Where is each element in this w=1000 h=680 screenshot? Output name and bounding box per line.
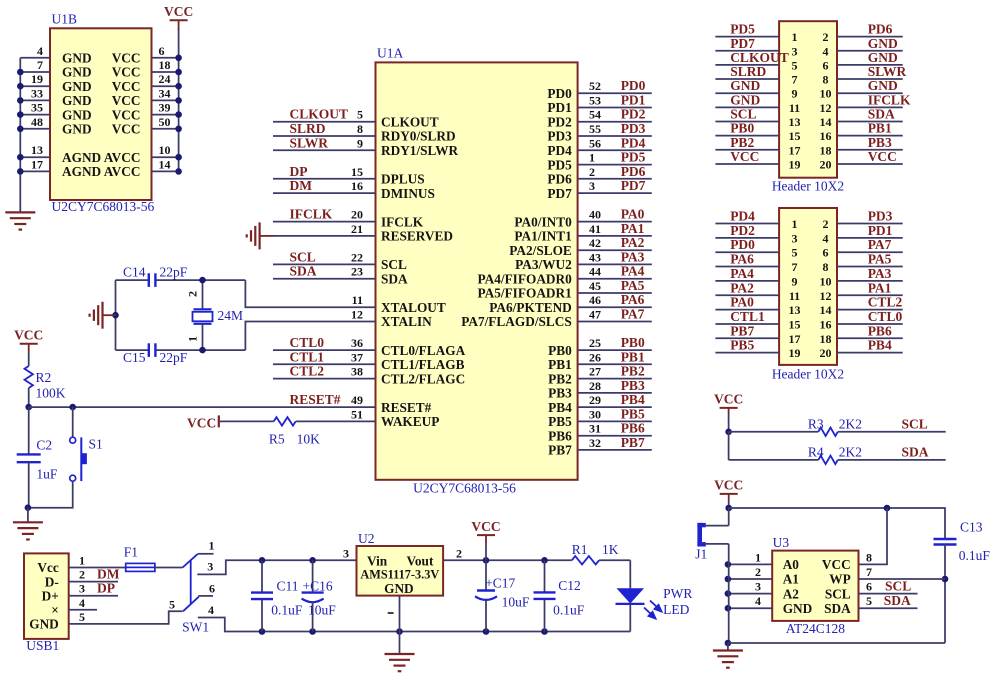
junction [175, 168, 182, 175]
Header2 pin 5 wire + net PD0 [715, 251, 779, 253]
svg-text:26: 26 [589, 350, 601, 364]
svg-text:56: 56 [589, 136, 601, 150]
svg-text:VCC: VCC [112, 107, 141, 122]
wire ground stem [399, 632, 401, 655]
wire net PA3 from U1A [578, 263, 652, 265]
wire net PA2 from U1A [578, 249, 652, 251]
wire net DP to U1A [273, 178, 376, 180]
junction [199, 347, 206, 354]
junction [17, 69, 24, 76]
junction [175, 83, 182, 90]
svg-text:22pF: 22pF [160, 350, 188, 365]
junction [175, 154, 182, 161]
svg-text:44: 44 [589, 265, 601, 279]
svg-text:U3: U3 [773, 535, 790, 550]
wire net PD6 from U1A [578, 178, 652, 180]
svg-text:GND: GND [62, 122, 92, 137]
svg-text:SCL: SCL [902, 416, 928, 431]
svg-text:47: 47 [589, 308, 601, 322]
svg-text:VCC: VCC [822, 557, 851, 572]
Header2 pin 18 wire + net PB6 [837, 337, 903, 339]
svg-text:3: 3 [792, 44, 798, 58]
svg-text:DMINUS: DMINUS [381, 186, 435, 201]
svg-text:IFCLK: IFCLK [868, 92, 911, 107]
Header1 pin 8 wire + net SLWR [837, 78, 903, 80]
U1B pin 39 (VCC) stub [152, 114, 179, 116]
svg-text:12: 12 [820, 101, 832, 115]
svg-text:19: 19 [31, 72, 43, 86]
net label DP wire [69, 595, 118, 597]
svg-text:PD0: PD0 [547, 86, 572, 101]
connector USB1 [24, 553, 69, 639]
junction [17, 126, 24, 133]
svg-text:PA7: PA7 [621, 307, 645, 322]
svg-text:PD0: PD0 [730, 237, 755, 252]
wire net PB7 from U1A [578, 449, 652, 451]
U3 pin 4 (GND) [728, 607, 772, 609]
svg-text:3: 3 [792, 231, 798, 245]
junction [17, 83, 24, 90]
SW1 linkage bar [190, 560, 192, 604]
Header1 pin 19 wire + net VCC [715, 163, 779, 165]
svg-text:VCC: VCC [187, 416, 216, 431]
Header1 pin 12 wire + net IFCLK [837, 106, 903, 108]
wire net CTL1 to U1A [273, 363, 376, 365]
ground symbol below U2 [385, 654, 415, 671]
svg-text:4: 4 [37, 44, 43, 58]
wire USB GND to SW1 pin5 [69, 611, 183, 624]
svg-text:PA3/WU2: PA3/WU2 [515, 257, 572, 272]
wire U1B left GND bus [19, 58, 21, 213]
svg-text:WP: WP [829, 572, 850, 587]
wire stub to ground [103, 314, 116, 316]
svg-text:U1A: U1A [377, 46, 403, 61]
wire net SLWR to U1A [273, 149, 376, 151]
wire net SLRD to U1A [273, 135, 376, 137]
svg-text:PB3: PB3 [548, 386, 572, 401]
wire net CTL0 to U1A [273, 349, 376, 351]
svg-text:25: 25 [589, 336, 601, 350]
U1B pin 18 (VCC) stub [152, 71, 179, 73]
svg-text:2: 2 [823, 217, 829, 231]
Header2 pin 12 wire + net PA1 [837, 294, 903, 296]
svg-text:31: 31 [589, 422, 601, 436]
svg-text:1: 1 [589, 151, 595, 165]
svg-text:2: 2 [456, 546, 462, 560]
wire 3.3V rail U2 Vout to LED [443, 559, 572, 561]
svg-text:CTL0/FLAGA: CTL0/FLAGA [381, 343, 466, 358]
svg-text:17: 17 [789, 332, 801, 346]
svg-text:2: 2 [823, 30, 829, 44]
wire VCC rail to C13 [729, 508, 945, 539]
svg-text:20: 20 [820, 346, 832, 360]
svg-text:5: 5 [79, 610, 85, 624]
svg-text:3: 3 [755, 580, 761, 594]
svg-text:IFCLK: IFCLK [290, 207, 333, 222]
svg-text:VCC: VCC [112, 51, 141, 66]
svg-text:SDA: SDA [290, 264, 317, 279]
svg-text:19: 19 [789, 157, 801, 171]
Header2 pin 6 wire + net PA7 [837, 251, 903, 253]
Header2 pin 3 wire + net PD2 [715, 237, 779, 239]
svg-text:18: 18 [159, 58, 171, 72]
svg-text:Vin: Vin [367, 554, 388, 569]
Header2 pin 19 wire + net PB5 [715, 352, 779, 354]
svg-text:8: 8 [866, 550, 872, 564]
net label DM wire [69, 581, 118, 583]
svg-text:R5: R5 [269, 432, 285, 447]
wire S1 bottom to C2 bottom [28, 481, 73, 508]
junction [259, 628, 266, 635]
svg-text:10K: 10K [297, 432, 321, 447]
svg-text:28: 28 [589, 379, 601, 393]
svg-text:AGND: AGND [62, 164, 101, 179]
ground symbol GND bus U1B [5, 212, 35, 229]
wire to ground [27, 508, 29, 523]
svg-text:6: 6 [823, 58, 829, 72]
U1B pin 6 (VCC) stub [152, 57, 179, 59]
wire U3 SCL out [859, 593, 918, 595]
svg-text:33: 33 [31, 86, 43, 100]
svg-text:C12: C12 [558, 578, 581, 593]
svg-text:AGND: AGND [62, 150, 101, 165]
svg-text:SCL: SCL [825, 586, 851, 601]
junction [69, 404, 76, 411]
svg-text:13: 13 [789, 303, 801, 317]
svg-text:PB6: PB6 [548, 428, 572, 443]
wire net PA0 from U1A [578, 221, 652, 223]
svg-text:XTALIN: XTALIN [381, 314, 432, 329]
svg-text:19: 19 [789, 346, 801, 360]
svg-text:8: 8 [823, 73, 829, 87]
junction [175, 126, 182, 133]
junction [725, 605, 732, 612]
svg-text:GND: GND [868, 36, 898, 51]
svg-text:52: 52 [589, 79, 601, 93]
junction [309, 557, 316, 564]
svg-text:51: 51 [351, 407, 363, 421]
svg-text:1uF: 1uF [36, 467, 58, 482]
switch S1 (pushbutton) [72, 407, 74, 437]
svg-text:SDA: SDA [381, 271, 408, 286]
svg-text:PB0: PB0 [548, 343, 572, 358]
IC U1A (CY7C68013-56 MCU) [376, 62, 578, 479]
wire net PA5 from U1A [578, 292, 652, 294]
wire VCC to R2 [28, 352, 30, 366]
svg-text:14: 14 [820, 115, 832, 129]
svg-text:PD7: PD7 [730, 36, 755, 51]
svg-text:PB6: PB6 [868, 323, 892, 338]
svg-text:U2: U2 [358, 531, 375, 546]
Header2 pin 7 wire + net PA6 [715, 266, 779, 268]
wire XTALOUT from crystal to U1A pin 11 [245, 280, 375, 307]
wire VCC down to SCL row [728, 414, 730, 432]
svg-text:CTL2/FLAGC: CTL2/FLAGC [381, 371, 465, 386]
svg-text:D-: D- [45, 574, 59, 589]
Header1 pin 13 wire + net SCL [715, 121, 779, 123]
svg-text:1: 1 [79, 554, 85, 568]
U1B pin 19 (GND) stub [20, 85, 50, 87]
junction [175, 97, 182, 104]
svg-text:DP: DP [97, 581, 115, 596]
svg-text:PD5: PD5 [730, 22, 755, 37]
fuse F1 [126, 563, 155, 571]
wire GND rail [262, 631, 630, 633]
svg-text:2: 2 [79, 568, 85, 582]
wire net DM to U1A [273, 192, 376, 194]
wire SDA pull-up net [729, 459, 819, 461]
svg-text:PB1: PB1 [868, 121, 892, 136]
svg-text:46: 46 [589, 293, 601, 307]
svg-text:CTL2: CTL2 [868, 295, 903, 310]
svg-text:A0: A0 [783, 557, 800, 572]
junction [17, 97, 24, 104]
svg-text:SDA: SDA [902, 444, 929, 459]
svg-text:VCC: VCC [868, 149, 897, 164]
svg-text:CTL1: CTL1 [730, 309, 765, 324]
wire net PD2 from U1A [578, 121, 652, 123]
svg-text:PA5/FIFOADR1: PA5/FIFOADR1 [477, 286, 571, 301]
svg-text:PD4: PD4 [621, 135, 646, 150]
svg-text:GND: GND [29, 617, 59, 632]
svg-text:41: 41 [589, 222, 601, 236]
svg-text:VCC: VCC [164, 4, 193, 19]
wire net PB4 from U1A [578, 406, 652, 408]
svg-text:PA6: PA6 [621, 292, 645, 307]
svg-text:0.1uF: 0.1uF [271, 603, 303, 618]
wire net PD1 from U1A [578, 107, 652, 109]
svg-text:C14: C14 [123, 265, 146, 280]
svg-text:14: 14 [820, 303, 832, 317]
svg-text:17: 17 [31, 157, 43, 171]
svg-text:PB0: PB0 [621, 335, 645, 350]
wire net PB1 from U1A [578, 363, 652, 365]
Header1 pin 10 wire + net GND [837, 92, 903, 94]
svg-text:DPLUS: DPLUS [381, 172, 425, 187]
svg-text:27: 27 [589, 365, 601, 379]
wire net SDA to U1A [273, 278, 376, 280]
capacitor C13 [934, 538, 957, 540]
svg-text:GND: GND [62, 65, 92, 80]
svg-text:DM: DM [97, 567, 120, 582]
U1B pin 7 (GND) stub [20, 71, 50, 73]
Header1 pin 3 wire + net PD7 [715, 50, 779, 52]
svg-text:1: 1 [186, 336, 200, 342]
svg-text:PD5: PD5 [621, 150, 646, 165]
junction [396, 628, 403, 635]
IC U3 (AT24C128 EEPROM) [772, 551, 858, 621]
svg-text:16: 16 [351, 179, 363, 193]
svg-text:2: 2 [186, 291, 200, 297]
svg-text:PB5: PB5 [730, 338, 754, 353]
svg-text:5: 5 [866, 594, 872, 608]
svg-text:PB4: PB4 [868, 338, 892, 353]
U3 pin 2 (A1) [728, 578, 772, 580]
svg-text:GND: GND [868, 78, 898, 93]
svg-text:R3: R3 [808, 416, 824, 431]
svg-text:PA0/INT0: PA0/INT0 [514, 214, 572, 229]
svg-text:IFCLK: IFCLK [381, 214, 424, 229]
capacitor C17 (polarized) [485, 560, 487, 590]
svg-text:GND: GND [730, 92, 760, 107]
svg-text:3: 3 [79, 582, 85, 596]
wire RESET# net to U1A pin 49 [29, 406, 376, 408]
svg-text:7: 7 [792, 260, 798, 274]
wire net PD4 from U1A [578, 149, 652, 151]
svg-text:45: 45 [589, 279, 601, 293]
svg-text:10: 10 [820, 274, 832, 288]
junction [483, 628, 490, 635]
wire net SCL to U1A [273, 263, 376, 265]
wire net IFCLK to U1A [273, 221, 376, 223]
Header2 pin 13 wire + net PA0 [715, 309, 779, 311]
svg-text:54: 54 [589, 108, 601, 122]
Header2 pin 17 wire + net PB7 [715, 337, 779, 339]
junction [259, 557, 266, 564]
svg-text:3: 3 [207, 559, 213, 573]
svg-text:GND: GND [62, 79, 92, 94]
svg-text:PA4/FIFOADR0: PA4/FIFOADR0 [477, 271, 572, 286]
svg-text:PA7/FLAGD/SLCS: PA7/FLAGD/SLCS [461, 314, 572, 329]
svg-text:DM: DM [290, 178, 313, 193]
svg-text:VCC: VCC [112, 65, 141, 80]
U1B pin 33 (GND) stub [20, 99, 50, 101]
svg-text:PB3: PB3 [621, 378, 645, 393]
Header1 pin 2 wire + net PD6 [837, 36, 903, 38]
junction [942, 576, 949, 583]
svg-text:PA4: PA4 [621, 264, 645, 279]
svg-text:37: 37 [351, 350, 363, 364]
svg-text:C2: C2 [36, 438, 52, 453]
junction [199, 277, 206, 284]
wire R2 to RESET node [28, 388, 30, 407]
svg-text:PB4: PB4 [548, 400, 572, 415]
Header2 pin 2 wire + net PD3 [837, 223, 903, 225]
wire net PB3 from U1A [578, 392, 652, 394]
svg-text:RESET#: RESET# [290, 392, 341, 407]
svg-text:PB3: PB3 [868, 135, 892, 150]
junction [725, 590, 732, 597]
svg-text:30: 30 [589, 407, 601, 421]
wire ground stem [727, 643, 729, 651]
svg-text:R4: R4 [808, 444, 824, 459]
junction [541, 628, 548, 635]
svg-text:PB2: PB2 [621, 364, 645, 379]
svg-text:8: 8 [357, 122, 363, 136]
ground symbol below C2 [13, 522, 43, 539]
SW1 pin 1 stub [198, 553, 214, 555]
svg-text:PD7: PD7 [547, 186, 572, 201]
svg-text:VCC: VCC [714, 392, 743, 407]
svg-text:XTALOUT: XTALOUT [381, 300, 446, 315]
svg-text:24: 24 [159, 72, 171, 86]
svg-text:S1: S1 [89, 437, 103, 452]
svg-text:SLWR: SLWR [290, 135, 329, 150]
svg-text:4: 4 [755, 594, 761, 608]
svg-text:CLKOUT: CLKOUT [290, 107, 349, 122]
svg-text:9: 9 [792, 87, 798, 101]
Header2 pin 9 wire + net PA4 [715, 280, 779, 282]
svg-text:20: 20 [820, 157, 832, 171]
Header1 pin 5 wire + net CLKOUT [715, 64, 779, 66]
svg-text:6: 6 [823, 246, 829, 260]
U3 pin 1 (A0) [728, 563, 772, 565]
Header1 pin 20 wire + net VCC [837, 163, 903, 165]
wire R1 to LED anode [629, 560, 631, 588]
svg-text:U1B: U1B [52, 12, 78, 27]
svg-text:PD4: PD4 [730, 209, 755, 224]
switch SW1 pole2 arm [183, 597, 199, 612]
svg-text:14: 14 [159, 157, 171, 171]
Header1 pin 11 wire + net GND [715, 106, 779, 108]
svg-text:PD5: PD5 [547, 157, 572, 172]
svg-text:36: 36 [351, 336, 363, 350]
svg-text:11: 11 [352, 293, 363, 307]
svg-text:24M: 24M [218, 308, 244, 323]
svg-text:40: 40 [589, 208, 601, 222]
svg-text:29: 29 [589, 393, 601, 407]
svg-text:49: 49 [351, 393, 363, 407]
junction [725, 429, 732, 436]
svg-text:PD2: PD2 [621, 107, 646, 122]
svg-text:10: 10 [159, 143, 171, 157]
Header1 pin 16 wire + net PB1 [837, 135, 903, 137]
svg-text:PB7: PB7 [621, 435, 645, 450]
junction [175, 111, 182, 118]
svg-text:32: 32 [589, 436, 601, 450]
svg-text:50: 50 [159, 115, 171, 129]
svg-text:11: 11 [789, 289, 800, 303]
svg-text:VCC: VCC [14, 328, 43, 343]
wire crystal left vertical to ground [115, 280, 117, 350]
svg-text:48: 48 [31, 115, 43, 129]
svg-text:42: 42 [589, 236, 601, 250]
svg-text:PA3: PA3 [621, 249, 645, 264]
svg-text:GND: GND [62, 93, 92, 108]
resistor R5 [274, 417, 296, 425]
svg-text:VCC: VCC [714, 478, 743, 493]
svg-text:RESERVED: RESERVED [381, 229, 453, 244]
svg-text:VCC: VCC [730, 149, 759, 164]
svg-text:WAKEUP: WAKEUP [381, 414, 439, 429]
svg-text:PB1: PB1 [621, 349, 645, 364]
svg-text:RESET#: RESET# [381, 400, 432, 415]
ground symbol at crystal [90, 302, 103, 329]
svg-text:15: 15 [351, 165, 363, 179]
svg-text:SW1: SW1 [182, 619, 209, 634]
connector Header2 10X2 (middle right) [779, 208, 837, 365]
wire VCC stem to rail [485, 543, 487, 560]
wire U1A pin21 RESERVED to ground [274, 235, 376, 237]
svg-text:13: 13 [31, 143, 43, 157]
wire VCC down to SDA row [728, 432, 730, 460]
svg-text:4: 4 [823, 231, 829, 245]
svg-text:USB1: USB1 [26, 638, 59, 653]
svg-text:1: 1 [792, 30, 798, 44]
junction [541, 557, 548, 564]
svg-text:4: 4 [208, 603, 214, 617]
resistor R3 [818, 428, 838, 436]
svg-text:PD3: PD3 [547, 129, 572, 144]
capacitor C12 [544, 560, 546, 592]
svg-text:PB5: PB5 [621, 406, 645, 421]
svg-text:PD0: PD0 [621, 78, 646, 93]
svg-text:9: 9 [357, 136, 363, 150]
U1B pin 4 (GND) stub [20, 57, 50, 59]
svg-text:SCL: SCL [290, 249, 316, 264]
svg-text:×: × [51, 603, 59, 618]
svg-text:12: 12 [820, 289, 832, 303]
